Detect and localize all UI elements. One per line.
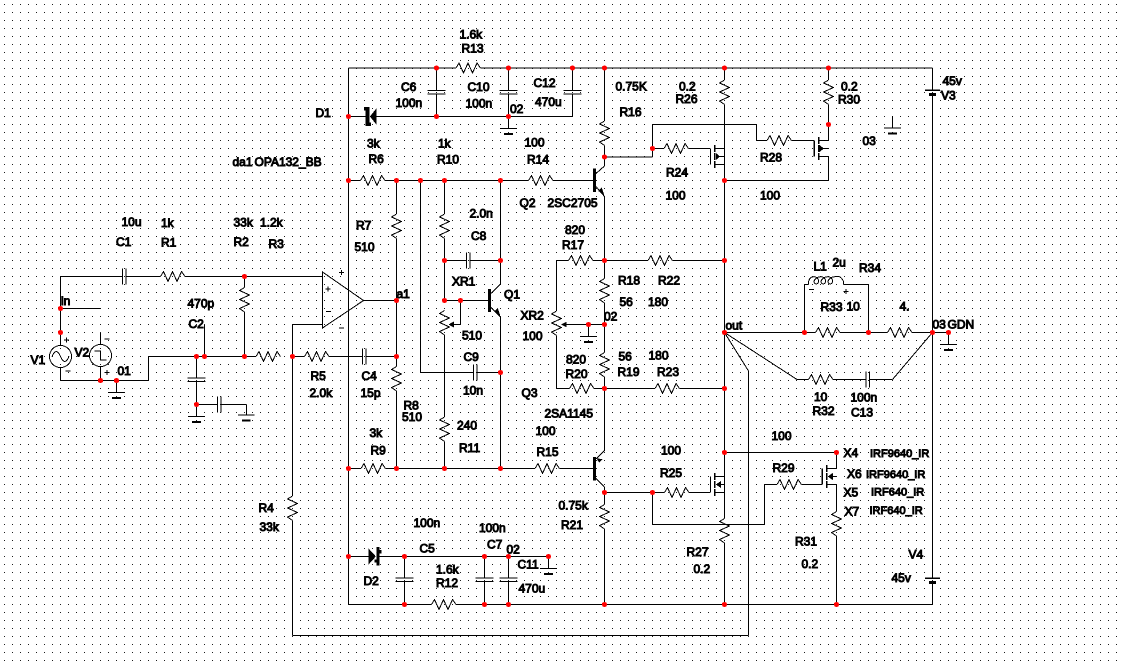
svg-text:OPA132_BB: OPA132_BB (255, 155, 322, 169)
node dot V2 bottom (98, 378, 103, 383)
resistor R24 (653, 148, 665, 150)
svg-text:R28: R28 (760, 151, 782, 165)
wire out row (725, 332, 816, 334)
svg-text:C12: C12 (534, 76, 556, 90)
resistor R7 (396, 181, 398, 215)
label L1 plus (843, 291, 848, 293)
svg-text:C4: C4 (362, 369, 378, 383)
wire R19 node to Q3 (604, 389, 606, 451)
svg-text:IRF9640_IR: IRF9640_IR (870, 448, 929, 460)
svg-text:XR2: XR2 (521, 309, 545, 323)
wire lower drain row (725, 452, 837, 454)
wire V2 bottom (100, 367, 102, 381)
wire D2 row (349, 556, 369, 558)
resistor R4 (292, 357, 294, 497)
wire in stub (61, 308, 101, 310)
resistor R13 (456, 63, 481, 73)
svg-text:C7: C7 (487, 538, 503, 552)
svg-text:X5: X5 (844, 486, 859, 500)
svg-text:Q1: Q1 (504, 288, 520, 302)
svg-text:R30: R30 (838, 93, 860, 107)
resistor R8 (396, 357, 398, 367)
resistor R6 (361, 176, 386, 186)
svg-text:1.6k: 1.6k (436, 563, 460, 577)
svg-text:X4: X4 (844, 446, 859, 460)
svg-text:C1: C1 (116, 235, 132, 249)
resistor R29 (765, 484, 778, 486)
svg-text:R2: R2 (234, 235, 250, 249)
wire bottom -45V rail (349, 604, 432, 606)
resistor R9 (361, 464, 386, 474)
svg-text:56: 56 (620, 295, 634, 309)
capacitor C6 (436, 68, 438, 91)
svg-text:820: 820 (565, 223, 585, 237)
wire gate crossover lower (652, 493, 654, 525)
svg-text:XR1: XR1 (452, 275, 476, 289)
svg-text:R23: R23 (657, 365, 679, 379)
svg-text:D1: D1 (316, 106, 332, 120)
svg-text:da1: da1 (233, 155, 253, 169)
svg-text:0.2: 0.2 (802, 557, 819, 571)
wire out feedback diagonal (725, 333, 749, 372)
resistor R15 (535, 464, 560, 474)
svg-text:R16: R16 (620, 105, 642, 119)
transistor Q2 2SC2705 (593, 169, 596, 193)
wire a1 to R8 node (396, 301, 398, 357)
wire M4 drain up (836, 453, 838, 469)
svg-text:100: 100 (661, 444, 681, 458)
capacitor C8 (445, 260, 467, 262)
svg-text:100n: 100n (396, 96, 423, 110)
svg-text:R17: R17 (562, 238, 584, 252)
resistor R28 (757, 140, 768, 142)
svg-text:R33: R33 (821, 300, 843, 314)
diode D2 (368, 548, 376, 565)
resistor R31 (832, 512, 842, 537)
svg-text:1.2k: 1.2k (260, 216, 284, 230)
resistor R33 (816, 328, 841, 338)
svg-text:10n: 10n (463, 384, 483, 398)
svg-text:100: 100 (666, 189, 686, 203)
node dot R30-M2 (826, 122, 831, 127)
ground under cap A (196, 405, 198, 417)
svg-text:510: 510 (462, 329, 482, 343)
wire V2 top stub (100, 333, 102, 345)
battery V4 (925, 577, 940, 579)
mosfet M1 upper-left IRF9640 (710, 149, 712, 165)
ground at node 02 top (508, 117, 510, 129)
capacitor C7 (484, 557, 486, 579)
wire input vertical (60, 277, 62, 346)
resistor R12 (432, 600, 457, 610)
svg-text:240: 240 (457, 419, 477, 433)
node dot C9 right (498, 370, 503, 375)
svg-text:a1: a1 (397, 287, 411, 301)
svg-text:180: 180 (648, 295, 668, 309)
svg-text:R14: R14 (527, 153, 549, 167)
wire M4 source down (836, 485, 838, 512)
svg-text:D2: D2 (364, 574, 380, 588)
potentiometer XR2 (552, 311, 562, 336)
svg-text:100: 100 (523, 329, 543, 343)
svg-text:C9: C9 (464, 350, 480, 364)
svg-text:01: 01 (118, 364, 132, 378)
capacitor C2 stub (204, 325, 206, 357)
svg-text:100n: 100n (851, 391, 878, 405)
svg-text:V1: V1 (31, 353, 46, 367)
svg-text:X6: X6 (847, 467, 862, 481)
svg-text:0.75K: 0.75K (616, 80, 647, 94)
wire M1 channel rail (724, 149, 726, 181)
resistor R2 (244, 277, 246, 288)
svg-text:470u: 470u (519, 582, 546, 596)
label L1 minus (809, 289, 814, 291)
wire gnd stub out (933, 332, 949, 334)
resistor R22 (605, 260, 649, 262)
svg-text:C2: C2 (189, 317, 205, 331)
svg-text:R34: R34 (859, 261, 881, 275)
svg-text:0.2: 0.2 (694, 562, 711, 576)
svg-text:R31: R31 (795, 535, 817, 549)
node dot in (58, 306, 63, 311)
svg-text:R15: R15 (537, 445, 559, 459)
capacitor C4 (362, 349, 364, 365)
svg-text:C8: C8 (471, 229, 487, 243)
wire supply mid rail (932, 333, 934, 578)
opamp minus input (326, 311, 331, 313)
source V1 sine (50, 346, 72, 368)
svg-text:IRF640_IR: IRF640_IR (870, 505, 923, 517)
ground node 03 floating (892, 116, 894, 128)
svg-text:Q2: Q2 (520, 196, 536, 210)
opamp plus power (339, 272, 344, 274)
capacitor C1 (122, 269, 124, 285)
transistor Q1 2SC2705 (488, 289, 491, 312)
svg-text:Q3: Q3 (522, 386, 538, 400)
wire gate crossover upper (652, 125, 654, 149)
resistor R17 (557, 260, 569, 262)
resistor R21 (604, 493, 606, 505)
diode D1 (349, 116, 367, 118)
wire M3 channel rail (724, 477, 726, 519)
capacitor C13 (865, 372, 867, 388)
svg-text:1k: 1k (161, 216, 175, 230)
svg-text:33k: 33k (260, 520, 280, 534)
wire Q3 collector down (604, 487, 606, 493)
wire R10 to Q1 base node (444, 261, 446, 301)
svg-text:R26: R26 (676, 92, 698, 106)
svg-text:100n: 100n (414, 516, 441, 530)
resistor R26 (724, 68, 726, 80)
svg-text:IRF640_IR: IRF640_IR (871, 487, 924, 499)
wire upper source row (725, 180, 829, 182)
wire Q1 base (445, 300, 489, 302)
wire base rail y180 (349, 180, 361, 182)
resistor R5 (293, 356, 305, 358)
svg-text:2SC2705: 2SC2705 (548, 196, 598, 210)
ground at node 01 (116, 381, 118, 393)
svg-text:1k: 1k (438, 137, 452, 151)
svg-text:R24: R24 (666, 166, 688, 180)
svg-text:2u: 2u (833, 256, 846, 270)
resistor R16 (604, 68, 606, 121)
svg-text:0.2: 0.2 (841, 80, 858, 94)
label V2 plus (105, 371, 110, 373)
svg-text:R10: R10 (437, 153, 459, 167)
svg-text:R25: R25 (660, 466, 682, 480)
capacitor decoupling A (196, 357, 198, 379)
svg-text:100: 100 (760, 189, 780, 203)
resistor R18 (604, 261, 606, 279)
wire M3 drain node (724, 389, 726, 477)
label V1 minus (66, 370, 71, 372)
svg-text:R18: R18 (618, 274, 640, 288)
potentiometer XR1 (440, 311, 450, 336)
svg-text:L1: L1 (814, 260, 828, 274)
capacitor decoupling B (197, 404, 218, 406)
inductor L1 (804, 285, 806, 333)
svg-text:R6: R6 (369, 152, 385, 166)
svg-text:56: 56 (619, 350, 633, 364)
capacitor C11 (508, 557, 510, 579)
svg-text:GDN: GDN (948, 318, 975, 332)
wire source return row (61, 380, 149, 382)
svg-text:100n: 100n (466, 97, 493, 111)
resistor R3 component (256, 352, 281, 362)
svg-text:R9: R9 (371, 444, 387, 458)
svg-text:0.75k: 0.75k (559, 499, 589, 513)
svg-text:02: 02 (604, 310, 618, 324)
wire Q2 collector stub (604, 157, 606, 166)
ground at bottom 02 node (548, 557, 550, 569)
resistor R27 (720, 519, 730, 544)
capacitor C5 (404, 557, 406, 579)
svg-text:IRF9640_IR: IRF9640_IR (866, 469, 925, 481)
label V2 minus (105, 338, 110, 340)
resistor R10 (444, 181, 446, 215)
wire Q3 collector row (605, 492, 653, 494)
svg-text:V2: V2 (75, 346, 90, 360)
wire out rail upper (724, 181, 726, 389)
svg-text:V3: V3 (941, 89, 956, 103)
svg-text:out: out (726, 319, 743, 333)
wire opamp output (364, 300, 397, 302)
node dot 01 (114, 378, 119, 383)
svg-text:R13: R13 (462, 42, 484, 56)
svg-text:2SA1145: 2SA1145 (545, 407, 594, 421)
svg-text:510: 510 (402, 410, 422, 424)
svg-text:in: in (61, 294, 70, 308)
svg-text:2.0k: 2.0k (310, 386, 334, 400)
mosfet M4 lower-right IRF640 (821, 469, 823, 485)
capacitor C10 (508, 68, 510, 91)
wire Q2 emitter down (604, 197, 606, 261)
label V1 plus (64, 339, 69, 341)
node dot out-drain row (722, 450, 727, 455)
wire left vertical rail (348, 68, 350, 605)
svg-text:100: 100 (536, 424, 556, 438)
svg-text:R5: R5 (311, 369, 327, 383)
resistor R34 (888, 328, 913, 338)
svg-text:10: 10 (847, 300, 861, 314)
svg-text:45v: 45v (943, 74, 962, 88)
svg-text:R1: R1 (161, 236, 177, 250)
wire V1 bottom (60, 368, 62, 381)
mosfet M2 upper-right IRF9640 (813, 141, 815, 157)
svg-text:33k: 33k (234, 216, 254, 230)
resistor R1 (161, 272, 186, 282)
ground at GDN node (948, 333, 950, 345)
wire x420 rail (420, 181, 422, 373)
svg-text:C6: C6 (401, 80, 417, 94)
wire Q1 emitter down (500, 317, 502, 469)
mosfet M3 lower-left IRF640 (710, 477, 712, 493)
wire y468 base row (349, 468, 362, 470)
resistor R25 (653, 492, 665, 494)
capacitor C9 (473, 365, 475, 381)
svg-text:V4: V4 (909, 548, 924, 562)
svg-text:R32: R32 (813, 404, 835, 418)
capacitor C12 (572, 68, 574, 91)
svg-text:R22: R22 (658, 274, 680, 288)
svg-text:10: 10 (814, 390, 828, 404)
opamp plus input (326, 288, 331, 290)
wire inverting input (293, 324, 323, 326)
svg-text:100: 100 (525, 136, 545, 150)
svg-text:R11: R11 (459, 441, 480, 455)
svg-text:C13: C13 (851, 406, 873, 420)
wire Q2 collector node row (605, 156, 653, 158)
node dot V1 top (58, 330, 63, 335)
svg-text:R21: R21 (561, 518, 583, 532)
svg-text:R12: R12 (436, 576, 458, 590)
svg-text:03: 03 (933, 318, 947, 332)
wire top +45V rail (349, 67, 457, 69)
resistor R20 (570, 384, 595, 394)
wire D1 row to C12 (437, 116, 573, 118)
svg-text:X7: X7 (845, 505, 860, 519)
svg-text:R29: R29 (773, 461, 795, 475)
svg-text:100n: 100n (479, 521, 506, 535)
svg-text:2.0n: 2.0n (470, 207, 493, 221)
svg-text:10u: 10u (122, 215, 142, 229)
wire M2 drain to R30 (828, 125, 830, 141)
svg-text:03: 03 (863, 134, 877, 148)
svg-text:180: 180 (649, 349, 669, 363)
svg-text:R19: R19 (618, 365, 640, 379)
resistor R14 (529, 176, 554, 186)
resistor R30 (828, 68, 830, 80)
svg-text:C11: C11 (518, 558, 539, 572)
svg-text:R27: R27 (687, 545, 709, 559)
wire input top row (61, 276, 123, 278)
svg-text:1.6k: 1.6k (460, 28, 484, 42)
svg-text:470p: 470p (188, 297, 215, 311)
svg-text:C5: C5 (420, 542, 436, 556)
opamp U1 OPA132 (323, 272, 364, 328)
resistor R32 (797, 379, 809, 381)
source V2 square (90, 345, 112, 367)
svg-text:R3: R3 (269, 237, 285, 251)
svg-text:45v: 45v (892, 571, 911, 585)
svg-text:4.: 4. (900, 300, 910, 314)
wire zobel diagonal (725, 333, 798, 380)
node dot XR2 gnd (586, 322, 591, 327)
svg-text:15p: 15p (361, 386, 381, 400)
svg-text:820: 820 (566, 353, 586, 367)
wire R17 to XR2 top (556, 261, 558, 312)
wire feedback bottom (293, 635, 749, 637)
ground at XR2 wiper (588, 325, 590, 337)
svg-text:R20: R20 (566, 367, 588, 381)
svg-text:3k: 3k (370, 426, 384, 440)
svg-text:470u: 470u (535, 95, 562, 109)
resistor R11 (440, 417, 450, 442)
transistor Q3 2SA1145 (593, 457, 596, 481)
resistor R23 (605, 388, 656, 390)
wire Q1 collector up (500, 181, 502, 285)
svg-text:R7: R7 (356, 219, 372, 233)
svg-text:3k: 3k (367, 137, 381, 151)
svg-text:C10: C10 (468, 80, 490, 94)
ground under cap B (238, 414, 255, 416)
junction dots (434, 65, 439, 70)
svg-text:100: 100 (772, 429, 792, 443)
battery V3 (932, 68, 934, 90)
opamp minus power (339, 327, 344, 329)
resistor R19 (604, 325, 606, 353)
svg-text:02: 02 (510, 102, 524, 116)
wire XR2 bottom to R20 (557, 388, 570, 390)
svg-text:R4: R4 (259, 501, 275, 515)
svg-text:510: 510 (355, 240, 375, 254)
